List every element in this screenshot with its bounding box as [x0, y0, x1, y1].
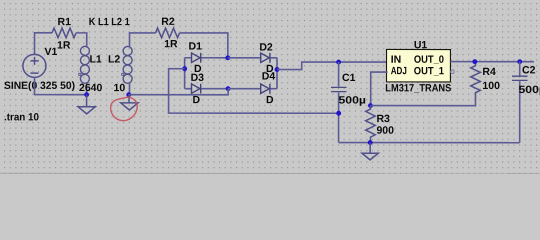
svg-text:LM317_TRANS: LM317_TRANS [385, 82, 451, 94]
junction: L2 bottom node [126, 92, 131, 97]
junction: ADJ node [368, 103, 373, 108]
resistor R4 [471, 62, 481, 100]
svg-text:100: 100 [482, 80, 500, 92]
resistor R1 [52, 28, 76, 38]
resistor R2 [156, 28, 180, 38]
svg-text:1R: 1R [164, 38, 178, 50]
svg-text:R3: R3 [376, 113, 390, 125]
diode D2 [261, 53, 270, 63]
svg-text:D: D [266, 94, 274, 106]
ground (under R3) [362, 143, 378, 160]
wire: L2 top to R2 [129, 33, 155, 95]
junction: bridge left mid [182, 66, 187, 71]
wire: ADJ node right to R4 bottom [370, 99, 475, 106]
wire: OUT_0 rail to right edge [450, 61, 534, 63]
diode D4 [261, 84, 270, 94]
svg-text:D2: D2 [259, 41, 273, 53]
svg-text:D1: D1 [189, 40, 203, 52]
junction: bottom rail meets C1 lead [336, 111, 341, 116]
junction: R4 top [472, 59, 477, 64]
svg-text:2640: 2640 [79, 82, 103, 94]
svg-text:IN: IN [391, 54, 402, 66]
capacitor C2 [512, 62, 528, 143]
svg-text:R2: R2 [161, 16, 175, 28]
wire: D1 row [185, 57, 228, 59]
diode D1 [192, 53, 201, 63]
svg-text:L2: L2 [108, 53, 120, 65]
inductor L1 [79, 46, 90, 94]
resistor R3 [366, 106, 376, 143]
wire: top mid to D2 [228, 57, 277, 59]
diode D3 [191, 84, 200, 94]
svg-text:ADJ: ADJ [391, 65, 407, 77]
junction: R3 bottom / bottom rail / ground [368, 140, 373, 145]
junction: bridge top mid [225, 55, 230, 60]
svg-text:C1: C1 [342, 72, 356, 84]
junction: bridge right mid (DC+) [275, 67, 280, 72]
svg-text:C2: C2 [522, 64, 536, 76]
svg-text:OUT_1: OUT_1 [414, 65, 444, 77]
svg-text:R4: R4 [482, 66, 496, 78]
svg-text:D4: D4 [262, 70, 276, 82]
svg-text:SINE(0 325 50): SINE(0 325 50) [4, 80, 75, 92]
wire: bottom mid to D4 [228, 88, 277, 90]
svg-text:U1: U1 [414, 39, 428, 51]
red sketch circle around L2 ground [111, 97, 138, 120]
svg-text:500µ: 500µ [518, 84, 540, 96]
svg-text:V1: V1 [45, 46, 58, 58]
svg-text:OUT_0: OUT_0 [414, 54, 444, 66]
svg-text:D: D [192, 94, 200, 106]
capacitor C1 [331, 62, 347, 143]
inductor L2 [122, 46, 133, 83]
wire: V1 bottom to L1 bottom junction [34, 77, 86, 95]
junction: C1 top [336, 60, 341, 65]
ground (under L2) [121, 95, 138, 110]
wire: R1 right to L1 top [76, 33, 87, 47]
svg-text:K L1 L2 1: K L1 L2 1 [89, 16, 130, 28]
wire: D3 row [185, 88, 228, 90]
wire: ADJ pin left and down to R3 [371, 72, 388, 106]
junction: bridge bottom mid [226, 86, 231, 91]
wire: bridge right rail [276, 58, 278, 89]
wire: DC+ output with jog up to IN rail [277, 62, 388, 70]
svg-text:L1: L1 [90, 53, 102, 65]
svg-text:1R: 1R [57, 40, 71, 52]
wire: bottom rail from C1 to C2 [339, 142, 520, 144]
wire: R2 right down into bridge top mid [180, 33, 228, 58]
svg-text:.tran 10: .tran 10 [4, 111, 39, 123]
wire: bridge left output down to bottom rail [169, 69, 339, 114]
svg-text:500µ: 500µ [338, 95, 366, 107]
voltage source V1 [23, 54, 46, 77]
junction: V1/L1/ground node [84, 92, 89, 97]
svg-text:R1: R1 [58, 16, 72, 28]
wire: V1 top stub up to top rail [35, 33, 53, 55]
IC U1 LM317_TRANS box [387, 49, 455, 81]
svg-text:D3: D3 [191, 72, 205, 84]
svg-text:10: 10 [113, 82, 125, 94]
junction: C2 top [517, 59, 522, 64]
wire: bottom mid down and left to L2 node [129, 89, 228, 95]
ground (under L1) [78, 95, 95, 114]
svg-text:900: 900 [376, 125, 394, 137]
wire: bridge left rail [184, 58, 186, 89]
